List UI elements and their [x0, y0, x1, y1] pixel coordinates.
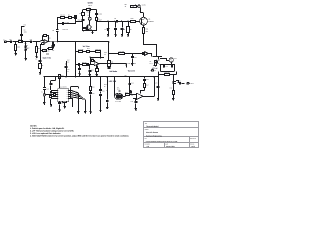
svg-text:+9V: +9V [124, 75, 127, 77]
svg-text:C8 10n: C8 10n [98, 14, 103, 16]
svg-text:T1: T1 [117, 87, 119, 89]
svg-text:R4: R4 [79, 13, 81, 15]
svg-text:TP1: TP1 [24, 24, 27, 26]
svg-text:CV: CV [154, 70, 156, 72]
svg-text:R9: R9 [41, 65, 43, 67]
svg-text:Gain Trim: Gain Trim [43, 56, 52, 59]
svg-text:AF XFMR: AF XFMR [115, 101, 121, 103]
svg-text:R2: R2 [68, 15, 70, 17]
svg-text:R5 22k: R5 22k [87, 11, 92, 13]
svg-text:C34: C34 [131, 101, 134, 103]
svg-text:R14: R14 [111, 62, 114, 64]
svg-text:R15: R15 [128, 63, 131, 65]
svg-text:C11: C11 [52, 50, 55, 52]
svg-text:C3n: C3n [24, 43, 27, 45]
svg-text:R31: R31 [104, 84, 107, 86]
svg-text:C40: C40 [165, 66, 168, 68]
svg-text:100k: 100k [24, 31, 27, 33]
svg-text:1u: 1u [67, 71, 69, 73]
svg-text:R21: R21 [61, 75, 64, 77]
svg-text:C13: C13 [134, 57, 137, 59]
svg-text:R23: R23 [92, 87, 95, 89]
svg-text:C30: C30 [46, 88, 49, 90]
svg-text:C1 10n: C1 10n [65, 22, 70, 24]
svg-text:Vol Mode: Vol Mode [109, 70, 117, 73]
svg-text:R5: R5 [43, 34, 45, 36]
svg-text:4. With NEUTRONS switch in far: 4. With NEUTRONS switch in far center po… [30, 135, 130, 138]
svg-text:R40 10k: R40 10k [164, 72, 169, 74]
svg-text:C41: C41 [155, 82, 158, 84]
svg-text:C31: C31 [131, 83, 134, 85]
svg-text:R24: R24 [67, 60, 70, 62]
svg-text:U3 NE570: U3 NE570 [60, 87, 67, 89]
svg-text:R2: R2 [24, 30, 26, 32]
svg-text:OSC: OSC [78, 19, 81, 21]
svg-text:R1 10k: R1 10k [60, 15, 65, 17]
svg-text:R7 10k: R7 10k [45, 50, 50, 52]
svg-text:C23: C23 [102, 90, 105, 92]
svg-text:C12: C12 [91, 69, 94, 71]
svg-text:R19 1k: R19 1k [82, 62, 87, 64]
svg-text:C42: C42 [178, 80, 181, 82]
svg-text:K1: K1 [150, 61, 152, 63]
svg-text:GATE: GATE [88, 1, 94, 4]
svg-text:DS1: DS1 [174, 58, 177, 60]
svg-text:Vol Trim: Vol Trim [83, 45, 90, 48]
svg-text:C22: C22 [92, 93, 95, 95]
svg-text:C7: C7 [88, 15, 90, 17]
svg-text:File: File [145, 138, 147, 140]
svg-text:R20: R20 [91, 58, 94, 60]
svg-text:R34: R34 [146, 84, 149, 86]
svg-text:Author: Author [145, 129, 150, 131]
svg-text:Title: Title [145, 123, 148, 125]
svg-text:Tune Vol: Tune Vol [128, 69, 136, 72]
svg-text:R32: R32 [125, 92, 128, 94]
svg-text:10k: 10k [67, 61, 69, 63]
svg-text:C8: C8 [35, 59, 37, 61]
svg-text:3. LCD is an optional Gain Ind: 3. LCD is an optional Gain Indicator. [30, 132, 61, 135]
svg-text:Document: Document [190, 138, 197, 140]
svg-text:U2A: U2A [48, 38, 51, 40]
svg-text:Theremin Model: Theremin Model [146, 125, 159, 128]
svg-text:V1: V1 [41, 92, 43, 94]
svg-text:Revision: Revision [145, 144, 150, 146]
svg-text:R12: R12 [104, 52, 107, 54]
svg-text:C25: C25 [67, 69, 70, 71]
svg-text:Sheets: Sheets [190, 144, 195, 146]
svg-text:C20: C20 [61, 103, 64, 105]
svg-text:CV in: CV in [149, 63, 152, 65]
svg-text:Date: Date [165, 144, 168, 146]
svg-text:LPF F.B: LPF F.B [109, 80, 117, 83]
svg-text:R17: R17 [87, 48, 90, 50]
svg-text:U2B: U2B [97, 64, 100, 66]
svg-text:R42: R42 [170, 88, 173, 90]
svg-text:C33: C33 [146, 79, 149, 81]
